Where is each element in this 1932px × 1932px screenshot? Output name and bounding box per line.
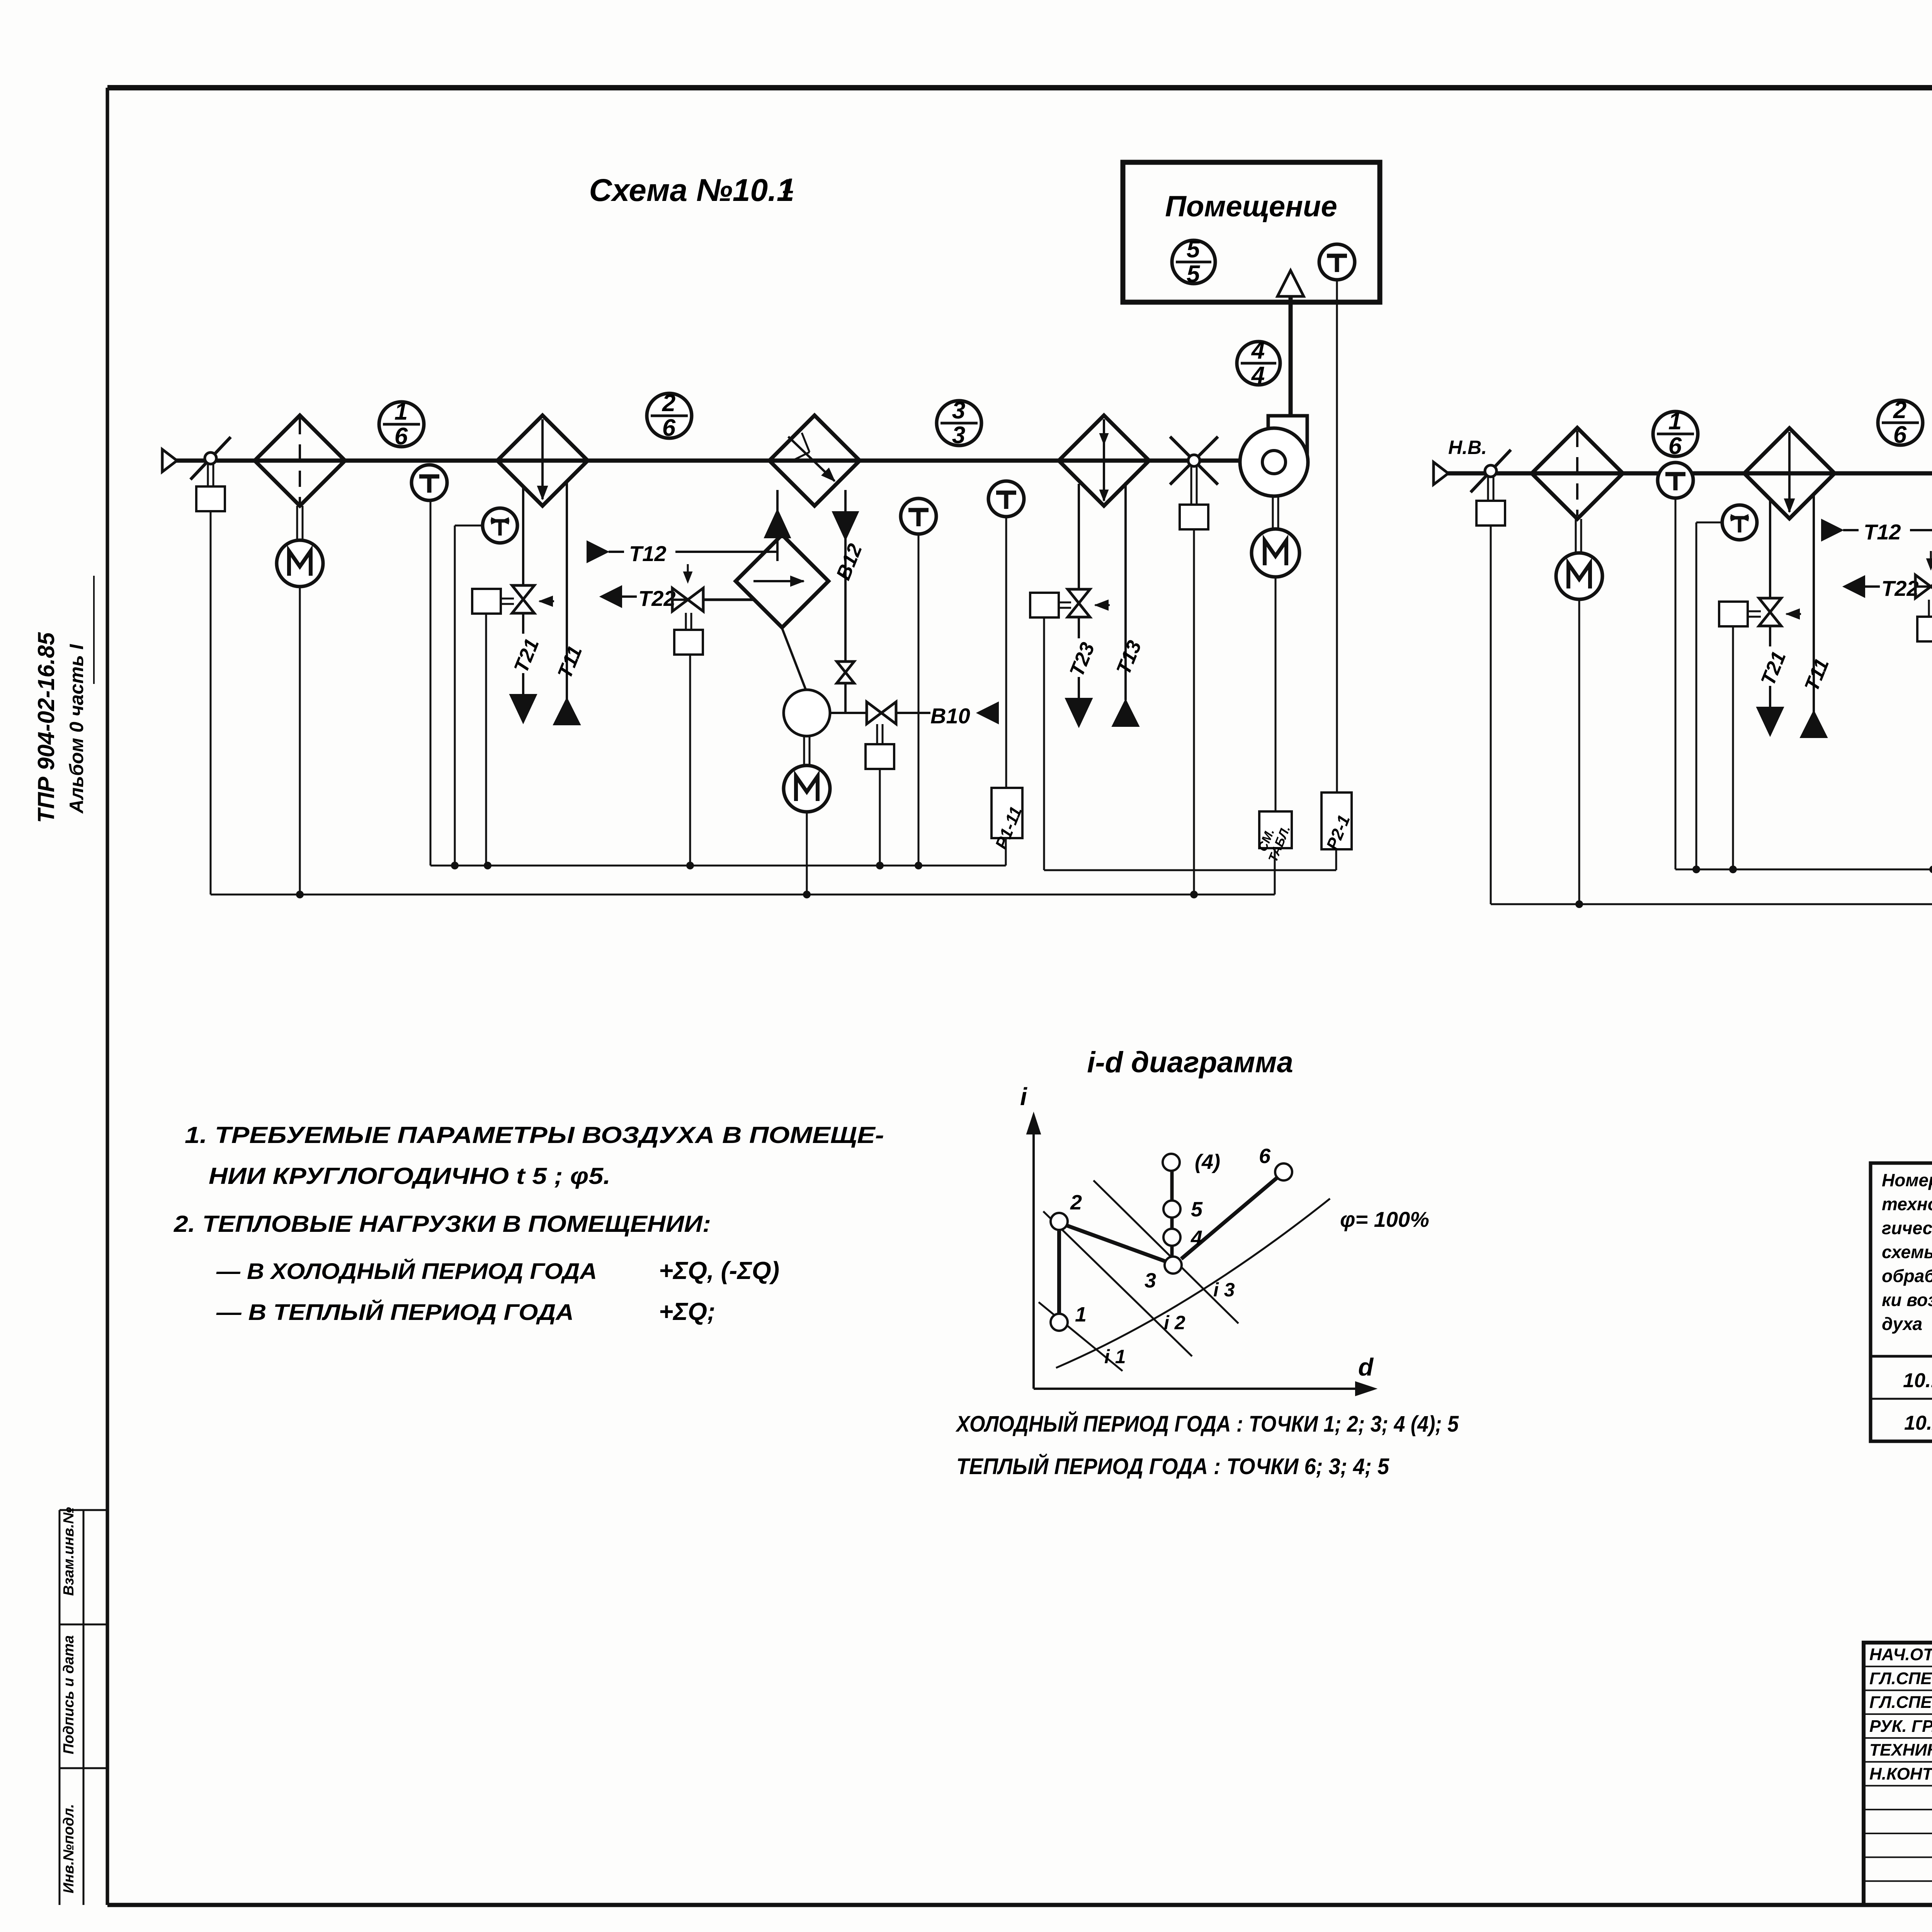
svg-text:i: i bbox=[1020, 1083, 1027, 1111]
svg-text:ХОЛОДНЫЙ ПЕРИОД ГОДА : ТОЧКИ: ХОЛОДНЫЙ ПЕРИОД ГОДА : ТОЧКИ 1; 2; 3; 4 … bbox=[955, 1411, 1459, 1437]
svg-text:5: 5 bbox=[1187, 236, 1201, 263]
svg-text:5: 5 bbox=[1191, 1198, 1203, 1221]
svg-text:НИИ КРУГЛОГОДИЧНО t 5 ; φ: НИИ КРУГЛОГОДИЧНО t 5 ; φ5. bbox=[209, 1163, 611, 1189]
svg-text:НАЧ.ОТД.: НАЧ.ОТД. bbox=[1869, 1645, 1932, 1664]
svg-text:Т22: Т22 bbox=[638, 586, 676, 611]
svg-text:— В ТЕПЛЫЙ ПЕРИОД ГОДА: — В ТЕПЛЫЙ ПЕРИОД ГОДА bbox=[216, 1299, 574, 1325]
svg-text:6: 6 bbox=[1259, 1145, 1271, 1168]
svg-text:духа: духа bbox=[1882, 1314, 1922, 1334]
svg-text:1: 1 bbox=[395, 398, 408, 425]
svg-text:Т22: Т22 bbox=[1881, 576, 1919, 600]
svg-text:+ΣQ;: +ΣQ; bbox=[659, 1298, 715, 1325]
svg-text:6: 6 bbox=[1893, 422, 1907, 448]
svg-text:1: 1 bbox=[1075, 1303, 1087, 1326]
svg-text:4: 4 bbox=[1251, 337, 1265, 364]
svg-text:Н.В.: Н.В. bbox=[1448, 437, 1487, 458]
svg-text:Т12: Т12 bbox=[629, 541, 667, 566]
svg-text:техноло-: техноло- bbox=[1882, 1194, 1932, 1214]
svg-text:Альбом 0 часть I: Альбом 0 часть I bbox=[66, 644, 87, 814]
svg-text:d: d bbox=[1358, 1353, 1374, 1381]
svg-text:2. ТЕПЛОВЫЕ НАГРУЗКИ В ПОМ: 2. ТЕПЛОВЫЕ НАГРУЗКИ В ПОМЕЩЕНИИ: bbox=[173, 1211, 711, 1237]
svg-text:2: 2 bbox=[1893, 397, 1906, 423]
svg-text:РУК. ГР.: РУК. ГР. bbox=[1869, 1717, 1932, 1736]
svg-text:1: 1 bbox=[782, 174, 794, 198]
svg-text:Т12: Т12 bbox=[1864, 520, 1901, 544]
svg-text:i-d диаграмма: i-d диаграмма bbox=[1087, 1046, 1293, 1079]
svg-text:Помещение: Помещение bbox=[1165, 190, 1337, 223]
svg-text:1. ТРЕБУЕМЫЕ ПАРАМЕТРЫ В: 1. ТРЕБУЕМЫЕ ПАРАМЕТРЫ ВОЗДУХА В ПОМЕЩЕ- bbox=[185, 1122, 884, 1148]
svg-text:6: 6 bbox=[395, 423, 408, 450]
svg-text:10.2: 10.2 bbox=[1904, 1412, 1932, 1434]
svg-text:i 1: i 1 bbox=[1104, 1346, 1126, 1367]
svg-text:4: 4 bbox=[1190, 1226, 1202, 1250]
svg-text:обработ-: обработ- bbox=[1882, 1266, 1932, 1286]
svg-text:— В ХОЛОДНЫЙ ПЕРИОД ГОДА: — В ХОЛОДНЫЙ ПЕРИОД ГОДА bbox=[216, 1259, 597, 1284]
svg-text:ГЛ.СПЕЦ.: ГЛ.СПЕЦ. bbox=[1869, 1693, 1932, 1712]
svg-text:ки воз-: ки воз- bbox=[1882, 1290, 1932, 1310]
svg-text:Номер: Номер bbox=[1882, 1170, 1932, 1190]
svg-text:2: 2 bbox=[1070, 1191, 1082, 1214]
svg-text:ТПР 904-02-16.85: ТПР 904-02-16.85 bbox=[33, 632, 59, 823]
svg-text:3: 3 bbox=[952, 422, 965, 449]
svg-text:3: 3 bbox=[952, 397, 965, 424]
svg-text:Подпись и дата: Подпись и дата bbox=[61, 1635, 77, 1754]
svg-text:6: 6 bbox=[1668, 433, 1682, 459]
svg-text:гической: гической bbox=[1882, 1218, 1932, 1238]
svg-text:(4): (4) bbox=[1195, 1150, 1220, 1173]
svg-text:ТЕПЛЫЙ ПЕРИОД ГОДА : ТОЧКИ: ТЕПЛЫЙ ПЕРИОД ГОДА : ТОЧКИ 6; 3; 4; 5 bbox=[956, 1454, 1389, 1479]
svg-text:6: 6 bbox=[662, 415, 676, 441]
svg-text:2: 2 bbox=[662, 390, 675, 417]
svg-text:схемы: схемы bbox=[1882, 1242, 1932, 1262]
svg-text:В10: В10 bbox=[930, 704, 970, 728]
svg-text:i 2: i 2 bbox=[1164, 1312, 1185, 1333]
svg-text:3: 3 bbox=[1145, 1269, 1156, 1292]
svg-text:ТЕХНИК: ТЕХНИК bbox=[1869, 1741, 1932, 1760]
svg-text:Н.КОНТР.: Н.КОНТР. bbox=[1869, 1764, 1932, 1783]
svg-text:+ΣQ, (-ΣQ): +ΣQ, (-ΣQ) bbox=[659, 1257, 779, 1284]
svg-text:φ= 100%: φ= 100% bbox=[1340, 1207, 1429, 1231]
svg-text:i 3: i 3 bbox=[1213, 1279, 1235, 1301]
svg-text:Схема №10.1: Схема №10.1 bbox=[589, 173, 794, 208]
svg-text:ГЛ.СПЕЦ.: ГЛ.СПЕЦ. bbox=[1869, 1669, 1932, 1688]
svg-text:Инв.№подл.: Инв.№подл. bbox=[61, 1804, 77, 1893]
svg-text:4: 4 bbox=[1251, 362, 1265, 389]
svg-text:10.1: 10.1 bbox=[1903, 1369, 1932, 1392]
svg-text:Взам.инв.№: Взам.инв.№ bbox=[61, 1507, 77, 1596]
svg-text:1: 1 bbox=[1668, 408, 1682, 435]
svg-text:5: 5 bbox=[1187, 261, 1201, 287]
